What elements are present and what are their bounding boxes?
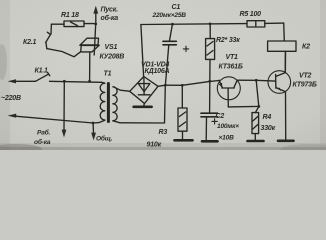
- capacitor C1: [163, 24, 189, 85]
- svg-text:220мк×25В: 220мк×25В: [152, 12, 187, 19]
- triac VS1: [80, 38, 99, 81]
- transformer T1 core: [107, 84, 110, 122]
- svg-text:С1: С1: [172, 4, 181, 11]
- resistor R1: [52, 21, 96, 27]
- wire bridge plus up to rail: [141, 25, 144, 77]
- wire top supply rail: [141, 23, 247, 26]
- transistor VT1: [217, 77, 240, 107]
- node: start-winding terminal (Пуск. об-ка) arrow up: [93, 6, 98, 25]
- svg-text:×10В: ×10В: [219, 135, 235, 142]
- wire VT1 base to R4 node: [228, 105, 258, 108]
- wire VT1 collector to VT2 base: [237, 79, 275, 82]
- relay K2 coil: [268, 41, 296, 71]
- svg-text:К2: К2: [302, 44, 310, 51]
- svg-text:КТ973Б: КТ973Б: [293, 82, 317, 89]
- svg-text:Пуск.: Пуск.: [101, 6, 119, 13]
- junction dot R2 bottom / emitter: [208, 80, 211, 83]
- wire R3 top lead: [181, 85, 183, 108]
- junction dot C1: [171, 23, 174, 26]
- ground under VT2 emitter: [278, 140, 294, 143]
- ground: bridge minus common bar: [134, 104, 152, 107]
- node: common terminal (Общ.) arrow down: [91, 123, 96, 140]
- junction dot R1/VS1/Пуск: [94, 23, 97, 26]
- junction dot R3 top: [181, 84, 184, 87]
- wire to primary bottom curl: [93, 120, 105, 123]
- wire R1-left down to K2.1: [50, 24, 52, 33]
- svg-text:910к: 910к: [147, 142, 162, 149]
- wire secondary top to bridge: [114, 87, 130, 92]
- resistor R2: [206, 24, 215, 81]
- junction dot C1/bridge node: [164, 84, 167, 87]
- resistor R5: [247, 21, 284, 27]
- mains input bottom wire with arrow: [8, 114, 93, 123]
- svg-text:С2: С2: [216, 113, 225, 120]
- capacitor C2: [201, 113, 218, 140]
- node: working winding terminal (Раб. об-ка) arrow down: [62, 81, 67, 137]
- contact K2.1: [46, 32, 51, 48]
- ground under C2: [202, 140, 218, 143]
- wire K2.1 to triac gate: [47, 49, 81, 57]
- svg-text:R1 18: R1 18: [61, 12, 79, 19]
- wire node N1: bridge/C1- across to VT1 emitter: [165, 81, 219, 86]
- right edge shading: [320, 0, 326, 150]
- wire K1.1 to transformer primary top: [50, 81, 102, 82]
- wire dot to triac: [94, 24, 96, 55]
- transistor VT2: [268, 51, 291, 140]
- svg-text:100мк×: 100мк×: [217, 123, 239, 130]
- svg-text:КУ208В: КУ208В: [100, 54, 125, 61]
- ground under R4: [248, 140, 264, 143]
- junction dot working-winding tap: [63, 80, 66, 83]
- svg-text:об-ка: об-ка: [34, 138, 51, 146]
- transformer T1 secondary winding: [113, 87, 117, 121]
- mains input top wire with arrow: [8, 79, 36, 83]
- svg-text:КД106А: КД106А: [145, 68, 170, 75]
- left edge shading: [0, 0, 10, 150]
- svg-text:~220В: ~220В: [1, 95, 21, 102]
- wire R2 bottom to C2 top: [209, 81, 211, 113]
- svg-text:R4: R4: [263, 114, 272, 121]
- resistor R4: [252, 113, 259, 140]
- junction dot common tap: [92, 122, 95, 125]
- contact K1.1: [36, 73, 50, 82]
- svg-text:VT2: VT2: [299, 73, 312, 80]
- svg-text:VS1: VS1: [105, 44, 118, 51]
- junction dot triac cathode / mains: [88, 80, 91, 83]
- svg-text:К2.1: К2.1: [23, 39, 37, 46]
- svg-text:R3: R3: [159, 129, 168, 136]
- wire bridge right vertex to node: [158, 85, 165, 86]
- wire R5 right down to K2: [283, 23, 286, 41]
- svg-text:Общ.: Общ.: [96, 135, 113, 143]
- wire collector node down to R4: [255, 80, 258, 112]
- ground under R3: [175, 139, 193, 142]
- transformer T1 primary winding: [100, 83, 105, 120]
- bottom edge shadow: [0, 147, 326, 150]
- wire secondary bottom to bridge right: [113, 85, 165, 123]
- svg-text:К1.1: К1.1: [35, 68, 49, 75]
- junction dot base/R4: [257, 105, 260, 108]
- svg-text:VT1: VT1: [226, 54, 239, 61]
- svg-text:Раб.: Раб.: [37, 129, 51, 137]
- diode bridge VD1-VD4: [130, 77, 158, 104]
- svg-text:R2* 33к: R2* 33к: [216, 37, 240, 44]
- svg-text:Т1: Т1: [104, 71, 112, 78]
- wire primary top curl: [102, 81, 105, 84]
- junction dot collector node: [255, 79, 258, 82]
- svg-text:КТ361Б: КТ361Б: [219, 64, 243, 71]
- paper background: [0, 0, 326, 150]
- svg-text:330к: 330к: [261, 125, 276, 132]
- svg-text:R5 100: R5 100: [240, 11, 262, 18]
- svg-text:об-ка: об-ка: [101, 14, 119, 22]
- resistor R3: [178, 108, 187, 139]
- junction dot R2: [209, 23, 212, 26]
